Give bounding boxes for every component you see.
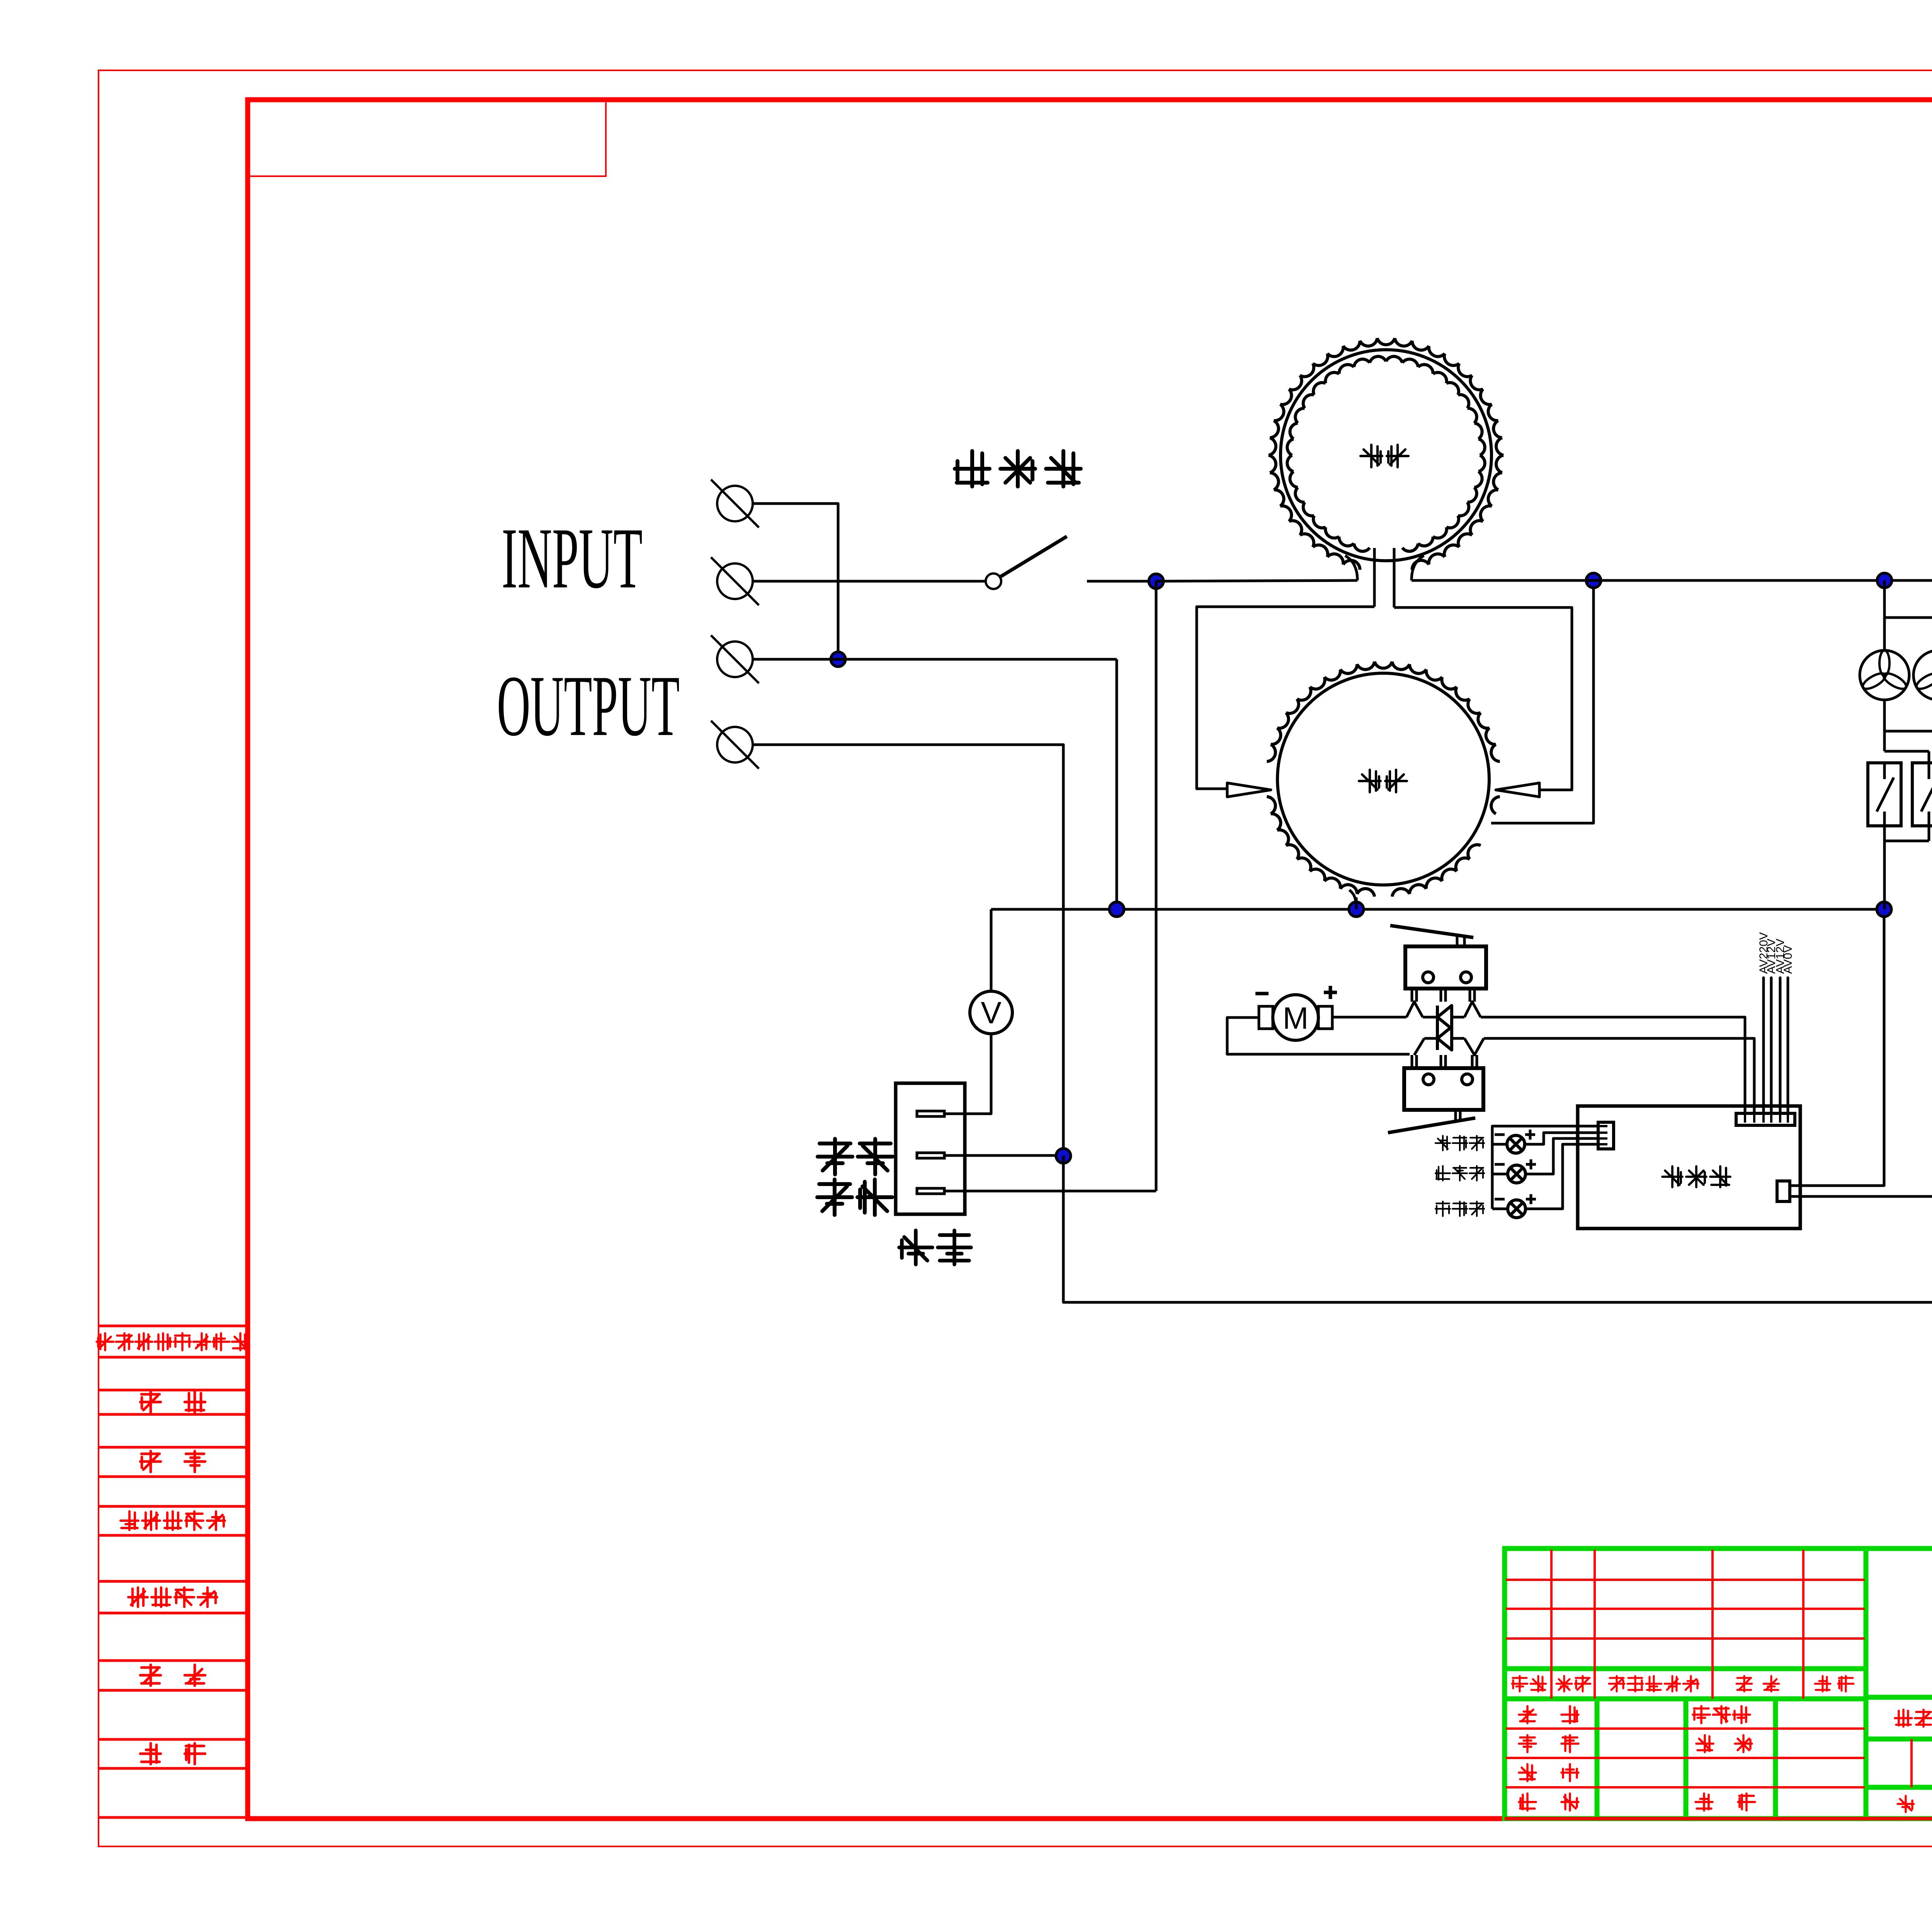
toroidal coil 1 线圈 — [1269, 338, 1503, 607]
wire lower-switch leg1 diagonal — [1414, 1038, 1424, 1055]
wire coil2 tap to bus junction C — [1491, 580, 1594, 823]
wire rail A leg1 to diode1 — [1423, 1016, 1437, 1019]
title row 校对 — [1519, 1735, 1578, 1752]
wire coil1 right lead loop — [1394, 607, 1572, 790]
wire 50C switches merge — [1884, 826, 1929, 909]
wire upper-switch leg3 triangles — [1464, 1002, 1481, 1017]
left table label 描校 — [140, 1451, 205, 1472]
wire motor minus loop rail C — [1227, 1018, 1410, 1054]
left margin table lines — [99, 1326, 246, 1817]
wire 50C switch split — [1884, 751, 1929, 763]
motor brush right — [1318, 1006, 1332, 1029]
board top connector — [1736, 1113, 1795, 1125]
wire T2 to breaker — [753, 580, 986, 583]
temperature switch 50C left box — [1868, 763, 1901, 826]
title row 设计 — [1519, 1706, 1578, 1723]
svg-text:INPUT: INPUT — [502, 510, 643, 606]
wire rail2 horizontal — [991, 908, 1884, 911]
border frame inner thick red rectangle — [248, 100, 1932, 1819]
wire rail A diode1 to leg3 — [1452, 1016, 1464, 1019]
title row 审核 — [1519, 1764, 1578, 1781]
wire rail B diode2 to leg3 — [1452, 1037, 1464, 1040]
wire rail B leg1 to diode2 — [1424, 1037, 1437, 1040]
board left connector — [1598, 1122, 1614, 1149]
label 按钮 — [899, 1230, 971, 1264]
board right connector square — [1777, 1181, 1790, 1201]
wire junction B down — [1155, 581, 1158, 1191]
wire T1 to junction A — [753, 504, 838, 659]
wire board square upper to rail2 junction — [1790, 909, 1884, 1186]
wire fans merge — [1884, 700, 1932, 751]
label 欠压灯 — [1435, 1201, 1484, 1216]
circuit breaker 断路器 switch — [986, 536, 1067, 589]
node junction A — [831, 652, 845, 667]
wire rail A motor to leg1 — [1332, 1016, 1406, 1019]
wiper arrow right of coil2 — [1496, 783, 1539, 797]
title header 更改文件号 — [1609, 1676, 1699, 1691]
wire button pin3 wire — [944, 1190, 965, 1193]
node junction H bus-fan branch — [1877, 573, 1892, 588]
terminal T4 — [711, 721, 759, 769]
lamp bus vertical — [1492, 1126, 1598, 1209]
voltmeter V — [970, 991, 1012, 1034]
circuit board 线路板 — [1578, 1106, 1800, 1229]
left table label 描图 — [140, 1392, 205, 1412]
wire to button middle pin — [965, 1190, 1156, 1193]
top-left registration box — [250, 102, 606, 176]
wire button pin2 to junction F — [944, 1154, 1063, 1157]
push button box 按钮 — [896, 1083, 965, 1214]
wire breaker to junction B — [1087, 580, 1156, 583]
lamp 工作灯 — [1508, 1165, 1526, 1183]
toroidal coil 2 线圈 — [1267, 662, 1500, 909]
wire bus to coil1 left end — [1156, 580, 1357, 581]
title block green grid — [1505, 1548, 1932, 1819]
svg-text:M: M — [1283, 1001, 1309, 1035]
label 输出 — [818, 1139, 893, 1174]
label 工作灯 — [1435, 1166, 1484, 1181]
motor minus sign — [1255, 992, 1269, 995]
title header 签字 — [1736, 1676, 1779, 1691]
wire T3 down to rail — [1116, 659, 1118, 909]
temperature switch 50C right box — [1912, 763, 1932, 826]
terminal T1 — [711, 480, 759, 527]
node junction F — [1056, 1149, 1071, 1163]
label 线路板 — [1662, 1166, 1730, 1187]
wire fan branch split — [1884, 580, 1932, 650]
motor plus sign — [1324, 986, 1337, 999]
label 线圈 coil2 — [1359, 770, 1407, 792]
lamp plus signs — [1525, 1130, 1536, 1204]
wire rail A leg3 to board — [1481, 1017, 1745, 1113]
wire coil2 bottom lead — [1355, 897, 1358, 909]
lamp minus signs — [1495, 1135, 1505, 1199]
left table label 底图总号 — [128, 1588, 217, 1607]
motor M — [1273, 995, 1318, 1040]
lamp 过压灯 — [1507, 1135, 1525, 1153]
svg-text:V: V — [981, 995, 1002, 1030]
node junction E rail2-coil2 — [1349, 902, 1364, 917]
title row 工艺 — [1519, 1793, 1578, 1811]
svg-text:AV0V: AV0V — [1782, 945, 1794, 974]
wire rail B to board — [1484, 1038, 1754, 1113]
wire lamp2 to connector — [1526, 1138, 1598, 1174]
wire rail2 to V meter — [990, 909, 993, 991]
inner red border overdraw bottom — [1505, 1817, 1932, 1821]
terminal T2 — [711, 557, 759, 605]
wire upper-switch leg1 triangles — [1406, 1002, 1423, 1017]
terminal T3 — [711, 635, 759, 683]
title header 标记 — [1512, 1676, 1546, 1691]
label 过压灯 — [1435, 1136, 1484, 1150]
microswitch lower (limit switch) — [1388, 1055, 1483, 1133]
lamp 欠压灯 — [1508, 1200, 1526, 1218]
wire V meter to button pin1 — [944, 1034, 991, 1114]
left table label 旧底图总号 — [121, 1511, 225, 1530]
wire T4 right and down — [753, 745, 1063, 1156]
microswitch upper (limit switch) — [1390, 926, 1486, 1002]
node junction B breaker output — [1149, 574, 1163, 589]
wire T3 right — [753, 658, 1117, 661]
label 输入 — [817, 1179, 892, 1215]
title cell 共页 — [1898, 1796, 1932, 1812]
node junction C — [1586, 573, 1601, 588]
title cell 图样标记 — [1895, 1710, 1932, 1727]
fan 1 风扇 — [1860, 650, 1909, 700]
left table label 日期 — [140, 1743, 205, 1764]
svg-text:OUTPUT: OUTPUT — [497, 657, 680, 754]
motor brush left — [1259, 1006, 1273, 1029]
wire lamp1 to connector — [1525, 1133, 1598, 1144]
left table label 借(通)用件登记 — [97, 1333, 249, 1350]
wire coil1 left lead loop — [1197, 607, 1374, 789]
label 断路器 — [955, 451, 1081, 487]
wire temperature switch chain — [1790, 669, 1932, 1196]
title block red grid — [1506, 1550, 1932, 1817]
title row 日期 — [1696, 1793, 1755, 1811]
wire lower-switch leg3 triangles — [1464, 1038, 1484, 1055]
title row 审定 — [1696, 1735, 1752, 1752]
diode D2 — [1437, 1027, 1452, 1050]
lamp left stubs — [1492, 1144, 1507, 1209]
wire lamp3 to connector — [1526, 1144, 1598, 1209]
wire bottom rail — [1063, 580, 1932, 1302]
title row 标准化 — [1693, 1706, 1750, 1723]
title header 处数 — [1556, 1676, 1590, 1691]
labels AV220V AV12V wire bundle — [1757, 932, 1794, 974]
wire bus coil1 right to N corner — [1412, 579, 1932, 582]
label 线圈 coil1 — [1361, 445, 1408, 467]
node junction D rail2-T3 — [1109, 902, 1124, 917]
title header 日期 — [1815, 1676, 1854, 1691]
diode D1 — [1437, 1006, 1452, 1029]
left table label 签字 — [140, 1665, 205, 1686]
fan 2 风扇 — [1913, 650, 1932, 700]
wiper arrow left of coil2 — [1227, 783, 1271, 797]
label OUTPUT — [497, 657, 680, 754]
label INPUT — [502, 510, 643, 606]
node junction G rail2-50C branch — [1877, 902, 1891, 917]
wire bundle to top connector — [1764, 978, 1788, 1113]
